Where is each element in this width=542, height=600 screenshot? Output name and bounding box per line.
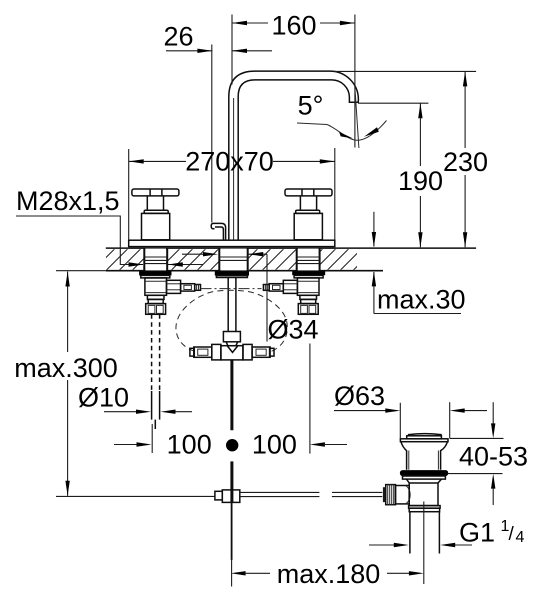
svg-text:100: 100: [167, 430, 212, 460]
svg-text:270x70: 270x70: [185, 147, 274, 177]
svg-text:/: /: [509, 524, 515, 545]
dimension 100 100 with center dot: [114, 344, 347, 460]
drain body: [409, 483, 438, 506]
svg-text:max.180: max.180: [277, 559, 381, 589]
dimension diameter 63: [334, 381, 487, 439]
svg-text:Ø10: Ø10: [78, 383, 129, 413]
svg-text:26: 26: [163, 22, 193, 52]
dashed hose loop around tee: [176, 290, 287, 351]
svg-text:4: 4: [516, 529, 525, 546]
drain plug cap: [409, 434, 441, 436]
left valve assembly below counter: [141, 275, 201, 314]
svg-text:max.30: max.30: [377, 285, 466, 315]
tee right arm: [243, 344, 274, 360]
svg-text:Ø63: Ø63: [334, 381, 385, 411]
middle shank locknut (black): [215, 271, 249, 275]
dimension max.30: [372, 212, 466, 315]
right shank in counter: [297, 248, 320, 271]
spout outline: [229, 71, 359, 240]
dimension 160: [232, 11, 355, 148]
svg-text:M28x1,5: M28x1,5: [16, 186, 120, 216]
drain tailpipe: [409, 512, 411, 554]
left handle cross: [132, 189, 179, 240]
rod clamp fitting: [215, 491, 222, 500]
pop-up rod knob behind spout: [211, 223, 225, 240]
pop-up rod lower: [230, 461, 233, 503]
dimension 26: [163, 22, 272, 223]
drain rod port box: [396, 486, 410, 504]
svg-text:Ø34: Ø34: [268, 315, 319, 345]
dimension 230: [334, 71, 488, 247]
drain flange below gasket: [403, 476, 446, 479]
left shank in counter: [144, 248, 167, 271]
svg-text:100: 100: [252, 430, 297, 460]
label G1 1/4 with arrows: [369, 518, 525, 548]
dimension 270x70: [129, 147, 335, 241]
countertop top surface line: [106, 247, 476, 249]
spout shank tube below deck: [227, 277, 229, 331]
drain knurled adjuster knob: [383, 485, 396, 505]
tee fitting body: [221, 346, 243, 360]
dimension max.180: [231, 559, 424, 589]
tee left arm: [190, 344, 221, 360]
pop-up rod upper: [230, 360, 233, 430]
dimension diameter 34: [182, 252, 319, 345]
spout riser middle line: [233, 98, 235, 240]
drain gasket (black): [400, 470, 448, 476]
dimension diameter 10: [78, 383, 192, 414]
svg-text:160: 160: [271, 11, 316, 41]
mounting deck plate: [129, 240, 335, 246]
coupling nut on spout shank: [223, 332, 240, 342]
horizontal linkage rod: [240, 492, 382, 496]
countertop hatching: [93, 249, 375, 271]
svg-text:40-53: 40-53: [459, 442, 528, 472]
drain funnel rim: [400, 439, 448, 442]
svg-text:max.300: max.300: [14, 353, 118, 383]
dimension 190: [358, 103, 443, 247]
label 5 degrees with leader arc: [297, 86, 387, 148]
right handle cross: [285, 189, 332, 240]
drain body rings: [409, 506, 441, 509]
countertop bottom surface line: [56, 270, 106, 272]
svg-text:5°: 5°: [298, 91, 324, 121]
drain funnel body: [401, 442, 448, 470]
svg-text:230: 230: [443, 147, 488, 177]
dimension max.300: [14, 272, 215, 497]
plug rod inside tailpipe / extension: [423, 502, 425, 585]
centerline between valve ports (dash-dot): [201, 288, 262, 290]
rod below clamp: [231, 503, 233, 560]
middle shank in counter: [219, 248, 247, 271]
right valve assembly below counter: [263, 275, 323, 314]
svg-text:190: 190: [398, 166, 443, 196]
dimension 40-53: [448, 402, 529, 505]
label M28x1,5 with leader: [16, 186, 203, 267]
flexible hose (dashed) below left valve: [152, 314, 160, 429]
svg-text:G1: G1: [459, 518, 495, 548]
left shank locknut (black): [139, 271, 171, 275]
right shank locknut (black): [292, 271, 325, 275]
